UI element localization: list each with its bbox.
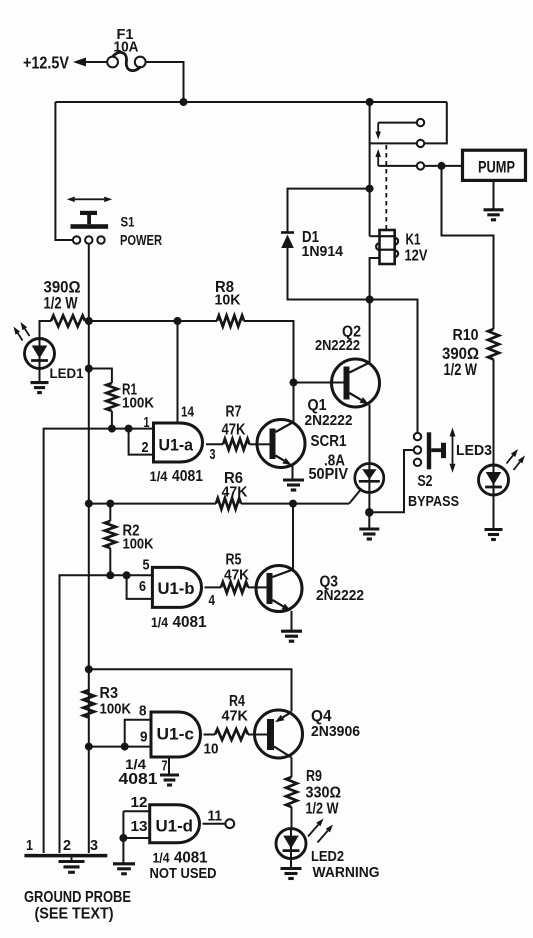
svg-text:WARNING: WARNING — [313, 864, 380, 881]
wire pin 13 — [123, 837, 149, 839]
svg-text:U1-d: U1-d — [156, 818, 194, 836]
svg-text:U1-b: U1-b — [158, 580, 195, 598]
transistor Q4 2N3906 — [255, 708, 361, 758]
wire pin 5 rail / probe line 2 — [60, 575, 153, 853]
svg-text:LED3: LED3 — [456, 443, 492, 459]
svg-text:R7: R7 — [226, 404, 242, 421]
ground pin 7 — [160, 775, 179, 785]
node +12.5V supply label — [23, 53, 69, 73]
ground probe bar — [24, 854, 107, 858]
wire common contact to PUMP — [424, 165, 461, 167]
svg-text:10: 10 — [204, 742, 219, 758]
ground Q3 — [281, 631, 302, 641]
svg-text:U1-a: U1-a — [159, 437, 194, 455]
wire fuse to top rail — [146, 62, 184, 102]
wire Q2 base — [294, 382, 344, 384]
svg-text:R10: R10 — [453, 327, 479, 344]
svg-text:4081: 4081 — [172, 468, 203, 485]
label 1/4 4081 for U1-a — [150, 468, 204, 485]
wire U1-a output pin 3 — [206, 443, 223, 445]
wire Q3 collector — [292, 504, 294, 570]
junction R1 bottom — [108, 425, 116, 433]
svg-text:4081: 4081 — [174, 850, 208, 867]
ground PUMP — [484, 210, 504, 220]
junction LED rail / S1 column — [85, 317, 93, 325]
svg-text:2N2222: 2N2222 — [316, 587, 364, 604]
wire PUMP to ground — [493, 182, 495, 210]
wire LED1 to ground — [39, 369, 41, 383]
relay contact top — [375, 119, 424, 140]
wire U1-d output pin 11 — [203, 823, 226, 825]
svg-text:1: 1 — [144, 414, 150, 431]
ground probe ground symbol — [59, 862, 85, 873]
wire Q2 emitter down to SCR1 — [369, 405, 371, 465]
wire R8 to Q1/Q2 base column — [244, 321, 294, 383]
label LED3 — [0, 0, 1, 1]
wire SCR node to ground — [368, 512, 370, 529]
svg-text:LED2: LED2 — [311, 848, 344, 865]
svg-text:2: 2 — [142, 439, 149, 456]
wire pin 6 branch — [127, 575, 153, 599]
ground LED1 — [31, 383, 49, 393]
svg-text:U1-c: U1-c — [157, 726, 195, 744]
wire U1-d inputs to ground — [122, 838, 124, 864]
svg-text:50PIV: 50PIV — [309, 466, 349, 483]
junction pin14 branch — [174, 317, 182, 325]
junction Q3 collector tap — [289, 500, 297, 508]
svg-text:100K: 100K — [123, 537, 154, 553]
resistor R6 47K — [216, 470, 349, 509]
svg-text:2N3906: 2N3906 — [311, 723, 360, 740]
thyristor SCR1 .8A 50PIV — [309, 433, 384, 502]
wire U1-b output pin 4 — [205, 586, 222, 588]
svg-text:R3: R3 — [100, 685, 119, 702]
wire pump node to R10 — [442, 166, 494, 329]
resistor R4 47K — [215, 693, 255, 740]
wire left rail down to S1 — [55, 102, 73, 240]
wire pin 14 of U1 — [178, 321, 195, 423]
junction fuse drop / top rail — [180, 98, 188, 106]
svg-text:R9: R9 — [306, 768, 322, 785]
wire S1 to LED rail — [88, 244, 90, 321]
op-amp gate U1-a (1/4 4081) — [142, 414, 216, 463]
label GROUND PROBE (SEE TEXT) — [24, 889, 131, 923]
svg-text:S1: S1 — [121, 214, 135, 230]
wire R10 to LED3 — [493, 359, 495, 464]
svg-text:11: 11 — [208, 808, 223, 825]
wire pin 13 node — [123, 810, 149, 812]
relay coil K1 12V — [370, 230, 428, 300]
wire pin 1 rail / probe line 1 — [44, 429, 154, 853]
svg-text:LED1: LED1 — [50, 365, 84, 381]
wire SCR1 cathode to ground node — [368, 465, 370, 513]
relay contact common — [375, 149, 424, 170]
svg-text:BYPASS: BYPASS — [408, 493, 459, 510]
transistor Q2 2N2222 — [315, 324, 380, 408]
ground Q1 — [283, 480, 304, 490]
svg-text:3: 3 — [90, 837, 98, 854]
svg-text:1/4: 1/4 — [151, 614, 168, 630]
svg-text:3: 3 — [210, 446, 216, 463]
wire SCR gate — [349, 502, 351, 504]
wire R9 to LED2 — [291, 807, 293, 829]
wire LED2 to ground — [290, 859, 292, 869]
wire 390 ohm to LED1 — [40, 321, 52, 339]
LED3 — [456, 443, 525, 495]
svg-text:47K: 47K — [222, 484, 248, 501]
svg-text:PUMP: PUMP — [478, 158, 515, 177]
svg-text:47K: 47K — [222, 708, 249, 725]
wire line 3 vertical — [88, 321, 90, 853]
svg-text:47K: 47K — [222, 422, 247, 439]
op-amp gate U1-d (1/4 4081) not used — [131, 794, 223, 843]
junction pin 2 branch — [125, 425, 133, 433]
svg-text:4081: 4081 — [173, 614, 207, 631]
wire pin 8 branch — [125, 720, 151, 747]
junction Q1/Q2 base node — [290, 379, 298, 387]
wire top rail — [55, 101, 446, 103]
ground LED3 — [485, 530, 503, 540]
svg-text:1/2 W: 1/2 W — [444, 361, 478, 379]
wire S2 middle contact to SCR cathode node — [369, 450, 414, 512]
wire Q4 emitter rail — [89, 669, 292, 711]
wire Q2 collector up to coil node — [369, 300, 371, 363]
svg-text:10A: 10A — [114, 40, 139, 56]
label 1/4 4081 for U1-b — [151, 614, 207, 631]
junction pin 8 branch — [121, 743, 129, 751]
svg-text:1/4: 1/4 — [125, 756, 146, 772]
node pin 11 open — [225, 819, 234, 828]
svg-text:330Ω: 330Ω — [306, 785, 342, 802]
svg-text:2N2222: 2N2222 — [305, 412, 353, 429]
junction D1 bottom / coil bottom — [366, 296, 374, 304]
junction R6 rail on line 3 — [85, 500, 93, 508]
wire coil node to S2 — [370, 300, 418, 434]
svg-text:100K: 100K — [122, 396, 154, 412]
svg-text:2N2222: 2N2222 — [315, 337, 360, 354]
junction R1 tap on line 3 — [85, 365, 93, 373]
svg-text:1/2 W: 1/2 W — [306, 801, 339, 818]
svg-text:2: 2 — [63, 837, 71, 854]
junction pin 6 branch — [123, 571, 131, 579]
wire dashed relay actuator — [385, 145, 387, 230]
wire pin 12 branch — [122, 811, 124, 838]
switch S2 BYPASS — [408, 428, 459, 511]
resistor 390 ohm 1/2 W — [44, 279, 89, 327]
wire Q1 collector — [293, 383, 295, 423]
resistor R8 10K — [215, 279, 245, 327]
svg-text:6: 6 — [139, 579, 146, 595]
svg-text:5: 5 — [143, 558, 150, 574]
wire R6 rail — [89, 503, 216, 505]
svg-text:1N914: 1N914 — [302, 243, 344, 260]
svg-text:12: 12 — [131, 794, 148, 811]
resistor R10 390 ohm 1/2 W — [442, 327, 499, 379]
svg-text:4: 4 — [209, 593, 216, 609]
node probe wire 1 — [26, 837, 33, 854]
svg-text:12V: 12V — [405, 248, 429, 265]
resistor R2 100K — [105, 504, 154, 576]
junction R2 bottom — [106, 571, 114, 579]
LED2 WARNING — [276, 819, 380, 882]
wire Q4 collector to R9 — [291, 758, 293, 778]
resistor R3 100K (in line 3) — [83, 685, 131, 718]
wire Q3 emitter to ground — [291, 611, 293, 631]
svg-text:(SEE TEXT): (SEE TEXT) — [35, 906, 114, 923]
wire +12.5V arrow to fuse — [73, 58, 107, 67]
wire Q1 emitter to ground — [292, 466, 294, 481]
wire pin 2 branch — [129, 429, 154, 455]
wire LED3 to ground — [493, 495, 495, 530]
wire pin 9 rail — [89, 746, 151, 748]
junction Q4 rail on line 3 — [85, 665, 93, 673]
transistor Q1 2N2222 — [257, 397, 353, 468]
junction D1 top tap — [366, 185, 374, 193]
wire NC contact drop from top rail — [424, 102, 447, 143]
svg-text:1/4: 1/4 — [153, 850, 170, 866]
wire rail to R8 — [89, 320, 217, 322]
svg-text:8: 8 — [139, 704, 147, 720]
resistor R9 330 ohm 1/2 W — [286, 768, 341, 818]
resistor R7 47K — [222, 404, 258, 450]
transistor Q3 2N2222 — [256, 566, 364, 612]
junction U1-d input tie — [119, 834, 127, 842]
svg-text:K1: K1 — [406, 232, 421, 249]
junction top rail / relay column — [366, 98, 374, 106]
node probe wire 3 — [90, 837, 98, 854]
label 1/4 4081 NOT USED — [150, 850, 217, 883]
svg-text:SCR1: SCR1 — [311, 433, 347, 450]
diode D1 1N914 — [281, 189, 370, 300]
ground SCR1 — [359, 529, 379, 539]
label 1/4 4081 for U1-c — [119, 756, 158, 788]
svg-text:4081: 4081 — [119, 771, 158, 788]
svg-text:+12.5V: +12.5V — [23, 53, 69, 73]
wire relay column — [369, 102, 371, 236]
relay contact middle — [370, 140, 425, 147]
op-amp gate U1-c (1/4 4081) — [139, 704, 219, 758]
svg-text:S2: S2 — [418, 473, 433, 490]
junction pin 8/9 rail — [85, 743, 93, 751]
node probe wire 2 — [63, 837, 71, 854]
junction SCR cathode — [365, 508, 374, 517]
wire probe bar to ground — [71, 857, 73, 861]
resistor R1 100K — [89, 369, 155, 429]
svg-text:GROUND PROBE: GROUND PROBE — [24, 889, 131, 906]
junction pump node — [438, 162, 446, 170]
ground LED2 — [281, 869, 302, 879]
wire U1-c output pin 10 — [204, 734, 216, 736]
wire U1-c pin 7 to ground — [162, 757, 170, 775]
resistor R5 47K — [221, 552, 256, 593]
svg-text:POWER: POWER — [120, 233, 162, 249]
svg-text:47K: 47K — [224, 567, 249, 584]
svg-text:1: 1 — [26, 837, 33, 854]
svg-text:13: 13 — [131, 818, 148, 835]
svg-text:9: 9 — [140, 730, 148, 746]
LED1 — [14, 322, 84, 381]
load PUMP — [463, 150, 526, 180]
svg-text:1/4: 1/4 — [150, 468, 168, 484]
switch S1 POWER — [67, 197, 163, 249]
svg-text:7: 7 — [162, 759, 168, 775]
svg-text:1/2 W: 1/2 W — [44, 295, 78, 313]
junction R2 top — [106, 500, 114, 508]
svg-text:10K: 10K — [215, 293, 242, 309]
ground U1-d — [113, 864, 135, 874]
fuse F1 10A — [107, 26, 145, 71]
svg-text:NOT USED: NOT USED — [150, 865, 217, 882]
svg-text:100K: 100K — [100, 701, 132, 718]
svg-text:14: 14 — [181, 404, 195, 421]
op-amp gate U1-b (1/4 4081) — [139, 558, 215, 610]
